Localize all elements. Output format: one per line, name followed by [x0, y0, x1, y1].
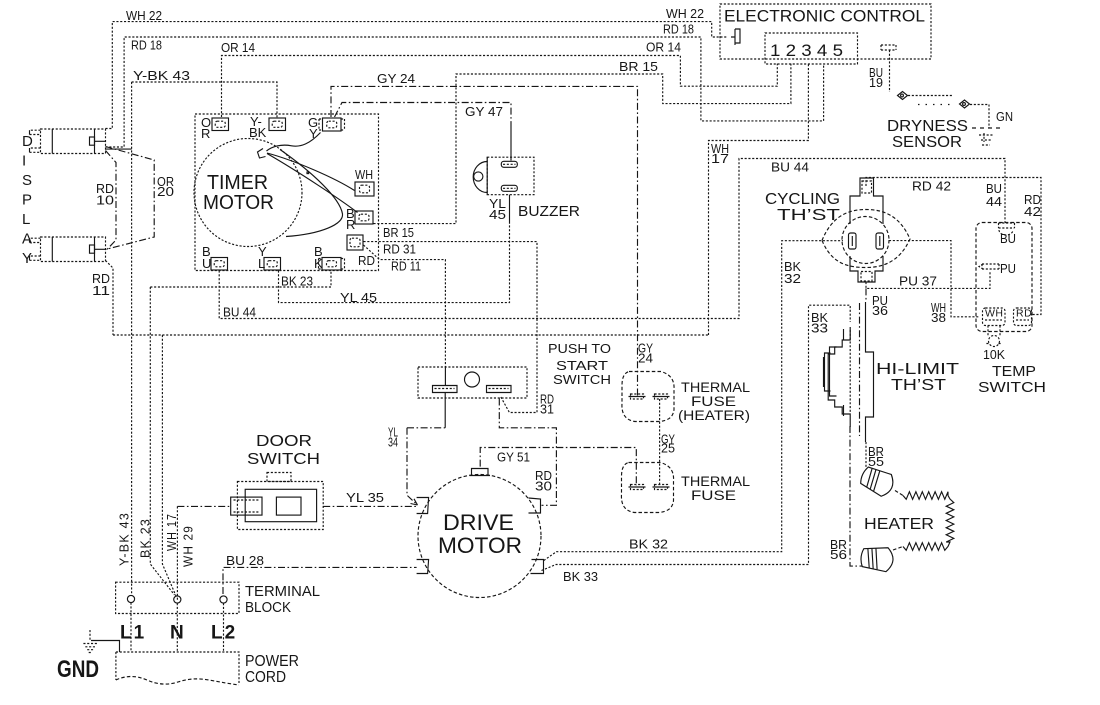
svg-text:WH 17: WH 17 — [164, 513, 179, 551]
svg-text:HEATER: HEATER — [864, 516, 934, 533]
svg-text:10: 10 — [96, 193, 114, 208]
svg-text:SWITCH: SWITCH — [978, 379, 1046, 396]
svg-text:FUSE: FUSE — [691, 488, 736, 503]
svg-text:SWITCH: SWITCH — [553, 372, 611, 387]
svg-text:DRYNESS: DRYNESS — [887, 118, 968, 135]
svg-text:RD 18: RD 18 — [663, 22, 694, 37]
svg-text:11: 11 — [92, 283, 110, 298]
svg-text:GY 24: GY 24 — [377, 71, 415, 86]
svg-text:17: 17 — [711, 151, 729, 166]
svg-text:WH: WH — [985, 308, 1004, 320]
svg-text:CORD: CORD — [245, 669, 286, 686]
svg-text:BU 44: BU 44 — [223, 305, 256, 320]
svg-text:L1: L1 — [120, 623, 146, 644]
svg-text:RD 11: RD 11 — [391, 259, 421, 274]
svg-text:TEMP: TEMP — [992, 363, 1036, 380]
svg-text:R: R — [201, 126, 210, 141]
svg-text:38: 38 — [931, 310, 946, 325]
svg-text:30: 30 — [535, 479, 552, 494]
svg-text:BU 28: BU 28 — [226, 553, 264, 568]
svg-text:BK 23: BK 23 — [138, 518, 153, 558]
svg-text:20: 20 — [157, 184, 174, 199]
svg-text:S: S — [22, 172, 32, 189]
svg-text:START: START — [556, 358, 608, 373]
svg-text:42: 42 — [1024, 204, 1041, 219]
svg-text:POWER: POWER — [245, 653, 299, 670]
svg-text:HI-LIMIT: HI-LIMIT — [876, 361, 959, 378]
svg-text:BLOCK: BLOCK — [245, 599, 291, 616]
svg-text:U: U — [202, 256, 211, 271]
svg-text:BK: BK — [249, 125, 267, 140]
svg-text:Y-BK 43: Y-BK 43 — [117, 512, 132, 566]
svg-text:Y: Y — [309, 126, 318, 141]
svg-text:TIMER: TIMER — [207, 172, 268, 194]
svg-text:WH: WH — [355, 167, 373, 182]
svg-text:L2: L2 — [211, 623, 237, 644]
svg-text:OR 14: OR 14 — [221, 40, 255, 55]
svg-text:SWITCH: SWITCH — [247, 451, 320, 468]
svg-text:BU 44: BU 44 — [771, 160, 809, 175]
svg-text:WH 22: WH 22 — [666, 6, 704, 21]
svg-text:45: 45 — [489, 207, 506, 222]
svg-text:RD 42: RD 42 — [912, 179, 951, 194]
svg-text:24: 24 — [638, 351, 653, 366]
svg-text:36: 36 — [872, 303, 888, 318]
svg-text:25: 25 — [661, 441, 675, 456]
svg-text:TERMINAL: TERMINAL — [245, 583, 320, 600]
svg-text:GN: GN — [996, 109, 1013, 124]
svg-text:TH’ST: TH’ST — [891, 377, 946, 394]
svg-text:31: 31 — [540, 402, 554, 417]
svg-text:WH 29: WH 29 — [181, 525, 196, 567]
svg-text:OR 14: OR 14 — [646, 40, 681, 55]
svg-text:GY 47: GY 47 — [465, 104, 503, 119]
svg-text:I: I — [22, 153, 26, 170]
svg-text:L: L — [258, 256, 265, 271]
svg-text:N: N — [170, 623, 184, 644]
svg-text:K: K — [314, 256, 323, 271]
svg-text:RD: RD — [358, 253, 375, 268]
svg-text:YL 45: YL 45 — [340, 290, 377, 305]
svg-text:MOTOR: MOTOR — [203, 192, 274, 214]
svg-text:FUSE: FUSE — [691, 394, 736, 409]
svg-text:56: 56 — [830, 547, 847, 562]
svg-text:(HEATER): (HEATER) — [678, 408, 750, 423]
svg-text:THERMAL: THERMAL — [681, 380, 751, 395]
svg-text:WH 22: WH 22 — [126, 8, 162, 23]
svg-text:RD 18: RD 18 — [131, 38, 162, 53]
svg-text:PUSH TO: PUSH TO — [548, 341, 611, 356]
svg-text:R: R — [346, 217, 355, 232]
svg-text:THERMAL: THERMAL — [681, 474, 751, 489]
svg-text:PU: PU — [1000, 261, 1016, 276]
svg-text:BU: BU — [1000, 231, 1016, 246]
svg-text:44: 44 — [986, 194, 1002, 209]
svg-text:A: A — [22, 231, 32, 248]
svg-text:BK 32: BK 32 — [629, 537, 668, 552]
svg-text:DRIVE: DRIVE — [443, 510, 514, 535]
svg-text:34: 34 — [388, 435, 398, 450]
svg-text:GY 51: GY 51 — [497, 450, 530, 465]
svg-text:TH’ST: TH’ST — [777, 207, 841, 224]
svg-text:MOTOR: MOTOR — [438, 533, 522, 558]
svg-text:BR 15: BR 15 — [619, 59, 658, 74]
svg-text:RD: RD — [1016, 308, 1032, 320]
svg-text:D: D — [22, 133, 33, 150]
svg-text:BUZZER: BUZZER — [518, 203, 580, 220]
svg-text:SENSOR: SENSOR — [892, 134, 962, 151]
svg-text:YL 35: YL 35 — [346, 490, 384, 505]
svg-text:Y: Y — [22, 250, 32, 267]
svg-text:32: 32 — [784, 271, 801, 286]
svg-text:GND: GND — [57, 656, 99, 683]
svg-text:1 2 3 4 5: 1 2 3 4 5 — [770, 41, 843, 60]
svg-text:19: 19 — [869, 75, 883, 90]
svg-text:10K: 10K — [983, 347, 1005, 362]
svg-text:BK 23: BK 23 — [281, 274, 313, 289]
svg-text:ELECTRONIC CONTROL: ELECTRONIC CONTROL — [724, 8, 925, 26]
svg-text:Y-BK 43: Y-BK 43 — [133, 68, 190, 83]
svg-text:CYCLING: CYCLING — [765, 191, 840, 208]
svg-text:PU 37: PU 37 — [899, 274, 937, 289]
svg-text:BR 15: BR 15 — [383, 225, 414, 240]
svg-text:55: 55 — [868, 454, 884, 469]
svg-text:33: 33 — [811, 321, 828, 336]
svg-text:L: L — [22, 211, 30, 228]
svg-text:RD 31: RD 31 — [383, 242, 416, 257]
svg-text:P: P — [22, 192, 32, 209]
svg-text:DOOR: DOOR — [256, 433, 312, 450]
svg-text:BK 33: BK 33 — [563, 569, 598, 584]
